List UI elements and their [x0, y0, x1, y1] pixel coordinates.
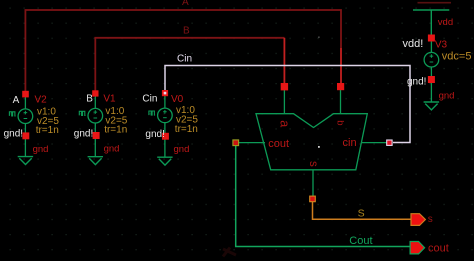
plus	[94, 110, 98, 114]
pin cin (square)	[387, 140, 392, 145]
voltage source V2 (net A)	[4, 91, 60, 165]
svg-text:gnd: gnd	[439, 91, 455, 102]
output pin s (arrow)	[411, 214, 433, 226]
wire B	[95, 38, 284, 93]
wire stub pin cin	[361, 142, 387, 144]
pin b (square)	[337, 83, 344, 90]
svg-text:V1: V1	[103, 94, 116, 105]
minus	[163, 117, 167, 119]
svg-text:gnd: gnd	[33, 144, 49, 155]
wire stub	[164, 96, 166, 108]
wire stub	[430, 42, 432, 53]
svg-text:vdc=5: vdc=5	[442, 51, 472, 63]
pin vdd (square)	[428, 35, 435, 42]
pin top (square)	[22, 91, 29, 98]
minus	[94, 117, 98, 119]
wire stub lower	[164, 123, 166, 158]
svg-text:b: b	[335, 120, 346, 125]
pulse icon	[9, 112, 15, 116]
wire Cout	[236, 146, 410, 247]
source circle	[424, 52, 439, 67]
wire stub lower	[94, 123, 96, 157]
ground symbol	[88, 157, 103, 165]
wire fragment top right	[418, 2, 452, 4]
pin s (square)	[310, 196, 316, 202]
pulse icon	[149, 111, 155, 115]
wire stub	[24, 97, 26, 109]
cursor ghost mark	[223, 248, 236, 257]
op-amp U0 full-adder symbol body	[256, 114, 367, 170]
svg-text:gnd!: gnd!	[407, 77, 426, 88]
wire stub lower	[430, 67, 432, 102]
svg-text:gnd!: gnd!	[4, 129, 23, 140]
pin gnd (square)	[22, 132, 29, 139]
pin a (square)	[281, 83, 288, 90]
wire stub	[94, 96, 96, 109]
svg-text:cout: cout	[268, 138, 289, 150]
svg-text:s: s	[307, 161, 319, 167]
instance origin dot	[318, 146, 320, 148]
wire A	[25, 10, 341, 95]
plus	[24, 111, 28, 115]
svg-text:Cin: Cin	[142, 94, 157, 105]
ground symbol	[424, 102, 440, 110]
svg-text:cin: cin	[343, 137, 357, 149]
svg-text:cout: cout	[428, 243, 449, 255]
plus	[163, 110, 167, 114]
wire Cin	[165, 66, 410, 143]
pin top (square)	[162, 90, 168, 96]
wire stub pin b	[340, 89, 342, 114]
wire stub lower	[24, 124, 26, 157]
minus	[430, 61, 434, 63]
output pin cout (arrow)	[410, 242, 449, 255]
pin cout (square)	[233, 140, 239, 146]
pulse icon	[79, 111, 85, 115]
svg-text:tr=1n: tr=1n	[36, 125, 59, 136]
svg-text:S: S	[358, 207, 365, 219]
svg-text:Cin: Cin	[177, 54, 192, 65]
svg-text:tr=1n: tr=1n	[104, 125, 127, 136]
minus	[24, 118, 28, 120]
svg-text:tr=1n: tr=1n	[175, 124, 198, 135]
svg-text:B: B	[86, 94, 93, 105]
pin gnd (square)	[93, 132, 100, 139]
svg-text:B: B	[183, 26, 190, 37]
svg-text:V3: V3	[435, 40, 448, 51]
pin top (square)	[92, 90, 98, 96]
faint grid mark	[318, 37, 319, 38]
source circle	[88, 108, 103, 123]
plus	[430, 54, 434, 58]
svg-text:A: A	[13, 95, 20, 106]
wire stub pin cout	[238, 142, 265, 144]
voltage source V1 (net B)	[74, 90, 128, 164]
vdd rail symbol	[413, 10, 449, 38]
svg-text:gnd!: gnd!	[145, 129, 164, 140]
ground symbol	[157, 157, 172, 165]
source circle	[18, 109, 33, 124]
svg-text:gnd: gnd	[174, 144, 190, 155]
svg-text:vdd: vdd	[438, 17, 453, 28]
pin gnd (square)	[162, 133, 169, 140]
svg-text:a: a	[278, 120, 292, 127]
svg-text:A: A	[182, 0, 189, 8]
svg-text:V2: V2	[35, 95, 48, 106]
svg-text:gnd!: gnd!	[74, 129, 93, 140]
svg-text:Cout: Cout	[349, 235, 372, 247]
svg-text:gnd: gnd	[104, 144, 120, 155]
source circle	[158, 108, 173, 123]
wire stub pin a	[283, 89, 285, 114]
svg-text:s: s	[428, 214, 433, 225]
ground symbol	[18, 157, 33, 165]
voltage source V0 (net Cin)	[142, 90, 198, 165]
pin gnd (square)	[428, 76, 435, 83]
voltage source V3 (vdd)	[403, 10, 472, 110]
svg-text:vdd!: vdd!	[403, 38, 424, 50]
wire S	[313, 202, 412, 219]
svg-text:V0: V0	[171, 94, 184, 105]
wire stub pin s	[312, 170, 314, 197]
